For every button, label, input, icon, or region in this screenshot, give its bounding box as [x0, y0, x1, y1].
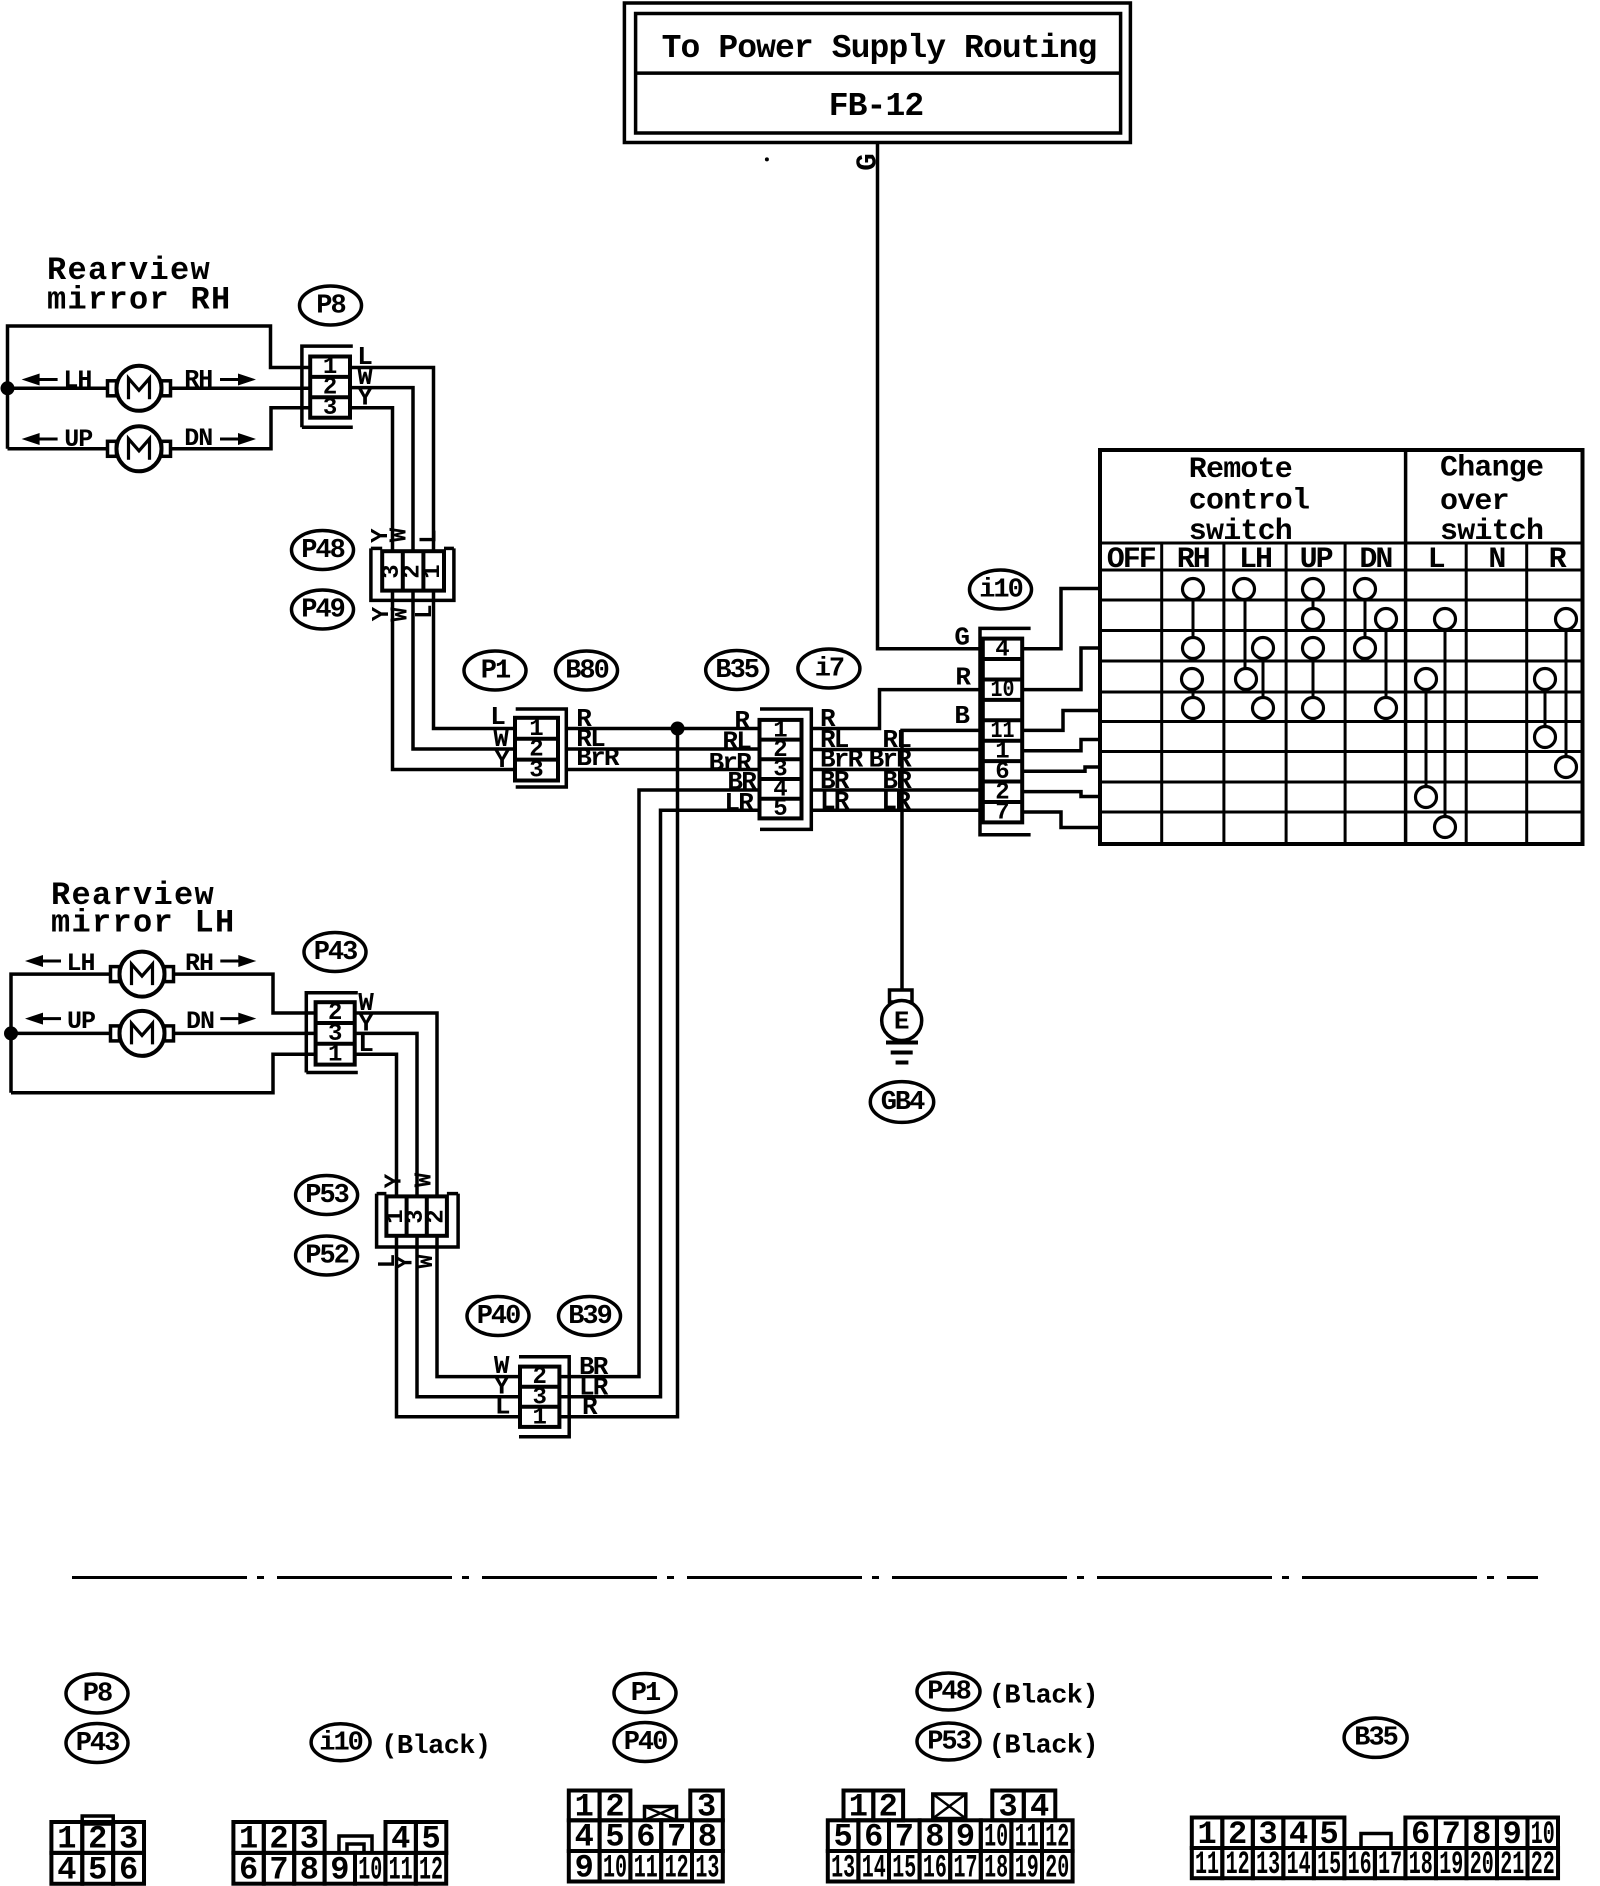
contact circle row3 c3 [1303, 638, 1324, 659]
wire Y from P8 pin3 [350, 408, 393, 551]
svg-text:12: 12 [665, 1849, 689, 1886]
svg-text:P52: P52 [305, 1242, 348, 1272]
wire RL from B35 pin2 to i10 pin1 [811, 748, 983, 752]
svg-text:21: 21 [1500, 1846, 1524, 1883]
svg-text:LR: LR [820, 787, 850, 817]
motor mirror RH horizontal [108, 381, 117, 396]
wire BR i10 pin2 to switch row8 [1022, 792, 1100, 797]
wire R from B35 pin1 to i10 pin10 with step [811, 690, 983, 729]
svg-text:UP: UP [67, 1007, 95, 1036]
legend oval P53 [917, 1723, 980, 1760]
contact link RH r4-r5 [1192, 679, 1195, 708]
svg-text:G: G [954, 623, 970, 653]
svg-text:11: 11 [634, 1849, 658, 1886]
arrow DN right [220, 438, 239, 441]
label Change over switch [1440, 452, 1543, 550]
svg-text:(Black): (Black) [381, 1732, 490, 1762]
pinout grid P1/P40 [569, 1788, 723, 1886]
svg-text:17: 17 [954, 1849, 978, 1886]
contact link R r2-r7 [1565, 619, 1568, 767]
contact circle row8 c1 [1416, 787, 1437, 808]
connector i10 designator oval [970, 570, 1032, 609]
svg-text:W: W [412, 1172, 439, 1187]
ground connector E symbol [882, 990, 922, 1063]
contact link RH r1-r3 [1192, 589, 1195, 648]
svg-text:P1: P1 [481, 657, 511, 687]
contact circle row6 c1 [1535, 727, 1556, 748]
wire RL from P1 pin2 to B35 pin2 [566, 747, 759, 751]
legend oval B35 [1344, 1718, 1407, 1757]
contact circle row5 c3 [1303, 698, 1324, 719]
wire R from P1 pin1 to B35 pin1 [566, 727, 759, 731]
svg-text:LH: LH [66, 949, 94, 978]
wire L below P48 to P1 pin1 [434, 591, 516, 729]
wire W below P52 to P40 pin2 [437, 1236, 520, 1377]
wire LR from B35 pin5 to i10 pin7 [811, 809, 983, 813]
svg-text:LH: LH [63, 366, 91, 395]
svg-text:P40: P40 [477, 1302, 520, 1332]
svg-text:P53: P53 [927, 1728, 970, 1758]
svg-text:P40: P40 [624, 1728, 667, 1758]
contact circle row2 c4 [1556, 609, 1577, 630]
connector P53 designator oval [296, 1176, 358, 1215]
svg-text:18: 18 [984, 1849, 1008, 1886]
contact circle row1 c1 [1183, 579, 1204, 600]
svg-text:i10: i10 [319, 1728, 362, 1758]
svg-text:16: 16 [1348, 1846, 1372, 1883]
svg-text:8: 8 [300, 1851, 319, 1886]
svg-text:L: L [417, 529, 444, 543]
legend oval P48 [917, 1673, 980, 1710]
svg-text:DN: DN [1359, 543, 1392, 577]
contact link DN r2-r5 [1385, 619, 1388, 708]
svg-text:13: 13 [831, 1849, 855, 1886]
svg-text:16: 16 [923, 1849, 947, 1886]
contact circle row7 c1 [1556, 757, 1577, 778]
svg-text:Y: Y [357, 383, 373, 413]
contact circle row4 c2 [1236, 669, 1257, 690]
ground GB4 designator oval [870, 1082, 933, 1123]
arrow UP left [39, 438, 58, 441]
connector P8 [302, 346, 353, 427]
connector P8 designator oval [300, 286, 362, 325]
power supply routing box FB-12 [624, 3, 1130, 143]
svg-text:To Power Supply Routing: To Power Supply Routing [662, 30, 1097, 67]
contact link DN r1-r3 [1364, 589, 1367, 648]
svg-text:6: 6 [239, 1851, 258, 1886]
junction node mirror RH [1, 381, 15, 395]
motor mirror RH vertical [108, 441, 117, 456]
svg-text:B: B [954, 701, 970, 731]
connector P40 designator oval [467, 1297, 529, 1336]
legend oval i10 [311, 1724, 370, 1761]
svg-text:10: 10 [603, 1849, 627, 1886]
svg-text:B80: B80 [565, 657, 608, 687]
svg-text:RH: RH [184, 366, 212, 395]
contact circle row4 c4 [1535, 669, 1556, 690]
contact circle row5 c2 [1253, 698, 1274, 719]
wire G from FB-12 to i10 pin 4 [878, 143, 983, 649]
contact circle row1 c3 [1303, 579, 1324, 600]
connector P49 designator oval [292, 590, 354, 629]
arrow RH right mirror LH [220, 960, 239, 963]
switch table [1100, 450, 1583, 844]
connector P53/P52 body [377, 1194, 459, 1247]
svg-text:L: L [412, 604, 439, 618]
svg-text:15: 15 [1317, 1846, 1341, 1883]
contact circle row4 c1 [1182, 669, 1203, 690]
label Remote control switch [1189, 453, 1309, 549]
wire Y below P48 to P1 pin3 [393, 591, 516, 770]
contact circle row5 c1 [1183, 698, 1204, 719]
junction node R wire [671, 722, 685, 736]
wire G i10 pin4 to switch row1 [1022, 589, 1100, 649]
svg-text:P43: P43 [76, 1729, 119, 1759]
svg-text:B35: B35 [715, 656, 758, 686]
svg-text:3: 3 [323, 395, 337, 422]
svg-text:Y: Y [494, 745, 510, 775]
svg-text:14: 14 [1287, 1846, 1311, 1883]
pinout grid i10 [233, 1820, 446, 1886]
stray dot [765, 157, 769, 161]
connector P52 designator oval [296, 1236, 358, 1275]
pinout grid P48/P53 [828, 1788, 1073, 1886]
mirror RH assembly outline [8, 326, 311, 449]
svg-text:10: 10 [358, 1851, 382, 1886]
svg-text:12: 12 [1226, 1846, 1250, 1883]
contact link LH r1-r4 [1244, 589, 1247, 679]
arrow DN right mirror LH [220, 1017, 239, 1020]
svg-text:UP: UP [64, 425, 92, 454]
Rearview mirror RH title [47, 252, 232, 319]
mirror LH assembly outline [11, 974, 316, 1093]
legend oval P40 [614, 1723, 676, 1762]
svg-text:19: 19 [1439, 1846, 1463, 1883]
wire BR from B35 pin4 to i10 pin2 [811, 788, 983, 792]
contact circle row9 c1 [1435, 817, 1456, 838]
arrow UP left mirror LH [42, 1017, 61, 1020]
svg-text:7: 7 [995, 800, 1009, 827]
wire BrR from P1 pin3 to B35 pin3 [566, 768, 759, 772]
wire Y from P43 pin3 [355, 1033, 417, 1196]
connector B35 designator oval [706, 651, 768, 690]
svg-text:20: 20 [1470, 1846, 1494, 1883]
wire W from P43 pin2 [355, 1013, 437, 1196]
connector B39 designator oval [559, 1297, 621, 1336]
svg-text:13: 13 [1256, 1846, 1280, 1883]
svg-text:E: E [894, 1007, 910, 1037]
svg-text:Change: Change [1440, 452, 1543, 486]
legend oval P8 [66, 1674, 128, 1713]
svg-text:5: 5 [773, 796, 787, 823]
connector P43 designator oval [304, 933, 366, 972]
svg-text:14: 14 [862, 1849, 886, 1886]
svg-text:Remote: Remote [1189, 453, 1292, 487]
svg-text:2: 2 [423, 1209, 450, 1223]
connector P1/B80 body [515, 709, 566, 787]
svg-text:LH: LH [1239, 543, 1271, 577]
svg-text:R: R [1549, 543, 1567, 577]
separator dash-dot line [72, 1576, 1538, 1579]
contact circle row3 c2 [1253, 638, 1274, 659]
svg-text:6: 6 [119, 1851, 138, 1886]
contact circle row2 c2 [1376, 609, 1397, 630]
svg-text:mirror LH: mirror LH [51, 905, 236, 942]
wire W from P8 pin2 [350, 388, 413, 552]
Rearview mirror LH title [51, 877, 236, 942]
svg-text:11: 11 [1195, 1846, 1219, 1883]
svg-text:L: L [358, 1029, 374, 1059]
legend oval P43 [66, 1724, 128, 1763]
wire BR B35 pin4 down to B39 pin2 [559, 790, 759, 1377]
junction node mirror LH [4, 1026, 18, 1040]
contact circle row2 c3 [1435, 609, 1456, 630]
svg-text:P8: P8 [316, 292, 345, 322]
svg-text:BrR: BrR [576, 743, 620, 773]
svg-text:DN: DN [184, 424, 212, 453]
connector P48 designator oval [292, 531, 354, 570]
svg-text:1: 1 [532, 1404, 546, 1431]
svg-text:4: 4 [57, 1851, 76, 1886]
svg-text:i10: i10 [979, 576, 1022, 606]
legend oval P1 [614, 1674, 676, 1713]
wire LR i10 pin7 to switch row9 [1022, 812, 1100, 828]
svg-text:control: control [1189, 485, 1309, 519]
wire BrR i10 pin6 to switch row7 [1022, 767, 1100, 771]
connector P48/P49 body [371, 548, 454, 600]
svg-text:18: 18 [1409, 1846, 1433, 1883]
svg-text:FB-12: FB-12 [829, 88, 924, 125]
connector P43 body [306, 993, 358, 1073]
svg-text:P53: P53 [305, 1181, 348, 1211]
svg-text:R: R [582, 1392, 598, 1422]
wire B from i10 pin11 down to ground E [902, 730, 983, 990]
motor mirror LH horizontal [111, 967, 120, 982]
wire LR B35 pin5 down to B39 pin3 [559, 810, 759, 1396]
connector P40/B39 body [519, 1357, 569, 1437]
svg-text:1: 1 [328, 1042, 342, 1069]
svg-text:Y: Y [382, 1173, 409, 1188]
wire L below P52 to P40 pin1 [397, 1236, 521, 1417]
connector i10 body [980, 628, 1031, 834]
svg-text:W: W [413, 1254, 440, 1269]
svg-text:1: 1 [420, 564, 447, 578]
svg-text:9: 9 [330, 1851, 349, 1886]
svg-text:11: 11 [389, 1851, 413, 1886]
wire RL i10 pin1 to switch row6 [1022, 740, 1100, 751]
svg-text:10: 10 [991, 677, 1015, 704]
contact link R r4-r6 [1544, 679, 1547, 737]
contact circle row5 c4 [1376, 698, 1397, 719]
svg-text:17: 17 [1378, 1846, 1402, 1883]
svg-text:12: 12 [419, 1851, 443, 1886]
svg-text:(Black): (Black) [989, 1732, 1098, 1762]
contact link UP r1-r2 [1312, 589, 1315, 619]
contact link UP r3-r5 [1312, 648, 1315, 708]
svg-text:LR: LR [881, 787, 911, 817]
pinout grid P8/P43 [51, 1816, 144, 1886]
svg-text:7: 7 [269, 1851, 288, 1886]
svg-text:L: L [1428, 543, 1445, 577]
svg-text:OFF: OFF [1107, 543, 1156, 577]
svg-text:P48: P48 [301, 536, 344, 566]
contact link L r4-r8 [1425, 679, 1428, 797]
svg-text:5: 5 [88, 1851, 107, 1886]
svg-text:20: 20 [1045, 1849, 1069, 1886]
svg-text:L: L [495, 1392, 511, 1422]
svg-text:over: over [1440, 485, 1509, 519]
contact circle row3 c1 [1183, 638, 1204, 659]
svg-text:P48: P48 [927, 1678, 970, 1708]
arrow RH right [220, 378, 239, 381]
wire L from P8 pin1 [350, 368, 434, 552]
wire W below P48 to P1 pin2 [413, 591, 515, 749]
svg-text:P1: P1 [631, 1679, 661, 1709]
contact circle row4 c3 [1416, 669, 1437, 690]
svg-text:19: 19 [1015, 1849, 1039, 1886]
switch column headers [1107, 543, 1567, 577]
svg-text:N: N [1488, 543, 1505, 577]
svg-text:13: 13 [695, 1849, 719, 1886]
svg-text:UP: UP [1300, 543, 1333, 577]
svg-text:9: 9 [575, 1849, 594, 1886]
svg-text:P49: P49 [301, 596, 344, 626]
arrow LH left [39, 378, 58, 381]
svg-text:GB4: GB4 [881, 1088, 925, 1118]
svg-text:G: G [852, 153, 885, 170]
svg-text:BrR: BrR [709, 748, 753, 778]
contact circle row1 c4 [1355, 579, 1376, 600]
wire B i10 pin11 to switch row5 [1022, 711, 1100, 731]
svg-text:P43: P43 [314, 938, 357, 968]
contact link LH r3-r5 [1262, 648, 1265, 708]
svg-text:R: R [955, 663, 971, 693]
contact circle row3 c4 [1355, 638, 1376, 659]
wire BrR from B35 pin3 to i10 pin6 [811, 768, 983, 772]
connector B35/i7 body [760, 709, 812, 829]
connector i7 designator oval [798, 649, 860, 688]
svg-text:P8: P8 [83, 1680, 112, 1710]
svg-text:B35: B35 [1354, 1724, 1397, 1754]
svg-text:DN: DN [186, 1007, 214, 1036]
svg-text:LR: LR [724, 788, 754, 818]
contact link L r2-r9 [1444, 619, 1447, 827]
wire R junction down to B39 pin1 [559, 729, 677, 1417]
svg-text:15: 15 [892, 1849, 916, 1886]
svg-text:3: 3 [529, 758, 543, 785]
svg-text:B39: B39 [568, 1302, 611, 1332]
wire R i10 pin10 to switch row3 [1022, 648, 1100, 690]
svg-text:4: 4 [995, 636, 1009, 663]
wire L from P43 pin1 [355, 1054, 397, 1196]
svg-text:i7: i7 [815, 655, 844, 685]
contact circle row2 c1 [1303, 609, 1324, 630]
svg-text:W: W [386, 527, 413, 542]
svg-text:(Black): (Black) [989, 1682, 1098, 1712]
svg-text:RH: RH [1177, 543, 1209, 577]
svg-text:22: 22 [1531, 1846, 1555, 1883]
svg-text:mirror RH: mirror RH [47, 282, 232, 319]
connector P1 designator oval [464, 651, 526, 690]
motor mirror LH vertical [111, 1026, 120, 1041]
pinout grid B35 [1192, 1816, 1558, 1883]
arrow LH left mirror LH [42, 960, 61, 963]
wire Y below P52 to P40 pin3 [417, 1236, 520, 1397]
svg-text:RH: RH [185, 949, 213, 978]
connector B80 designator oval [556, 651, 618, 690]
contact circle row1 c2 [1234, 579, 1255, 600]
svg-text:W: W [388, 607, 415, 622]
